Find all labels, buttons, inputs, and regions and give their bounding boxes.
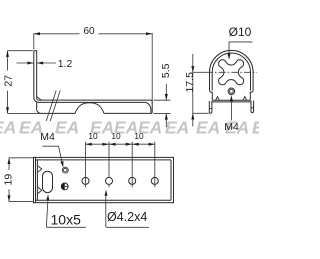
right press triangle [243, 97, 247, 101]
dim 5.5 top extension [154, 99, 171, 101]
left press triangle [216, 97, 220, 101]
svg-text:EA: EA [252, 118, 259, 138]
arrowheads 27 [6, 51, 9, 57]
svg-text:EA: EA [165, 118, 189, 138]
bracket plate bottom line end view [212, 101, 251, 103]
hole 1 [82, 177, 89, 184]
right end edge [151, 102, 152, 114]
dim 27 line [7, 51, 9, 114]
clamp bottom line [212, 99, 250, 101]
svg-text:10x5: 10x5 [51, 212, 82, 228]
M4 hole end view [228, 88, 235, 95]
arrowheads 60 [34, 32, 40, 35]
bend notch chevron top [38, 166, 42, 172]
leader M4 end view [230, 101, 232, 121]
arrowhead M4 end view [230, 95, 233, 101]
base top line [39, 100, 153, 102]
arrowhead 10x5 leader [46, 194, 49, 200]
dim 60 extension left [33, 33, 35, 50]
break mark slashes [46, 91, 60, 122]
arrowhead Ø4.2 leader [105, 190, 108, 196]
plate left fold lines [36, 157, 38, 202]
leader 10x5 [46, 198, 48, 227]
M4 hole plan [64, 168, 68, 172]
watermark EA row [0, 118, 276, 138]
slot 10x5 [43, 171, 53, 192]
svg-text:5.5: 5.5 [160, 63, 172, 78]
base bottom line [39, 102, 151, 113]
dim 19 extensions [9, 158, 33, 202]
plate inner top line [36, 159, 172, 161]
flange bottom right segment [104, 112, 151, 114]
dim 5.5 tails [165, 84, 167, 127]
bracket flange left (end view) [209, 101, 212, 113]
svg-text:EA: EA [0, 118, 16, 138]
hole 3 [129, 177, 136, 184]
svg-text:1.2: 1.2 [58, 58, 73, 70]
arrowheads 17.5 [191, 66, 194, 72]
horizontal centerline dash-dot [193, 71, 206, 73]
flange arch cutout [75, 103, 104, 114]
datum symbol [61, 183, 68, 190]
plate inner right line [170, 160, 172, 200]
svg-text:60: 60 [83, 26, 95, 37]
dim 60 extension right [151, 33, 153, 103]
dim 27 bottom extension [8, 112, 41, 114]
flange tick right [251, 107, 254, 109]
bend chamfer line [37, 97, 41, 100]
svg-text:27: 27 [3, 75, 15, 87]
leader Ø4.2 [105, 196, 107, 228]
arrowhead Ø10 leader [228, 53, 231, 59]
leader Ø10 [229, 42, 253, 53]
arrowheads 1.2 [27, 62, 33, 65]
arrowheads 5.5 [165, 94, 168, 100]
hole 4 [151, 177, 158, 184]
leader M4 plan [43, 146, 63, 164]
bend notch chevron bottom [38, 187, 42, 193]
bracket wall outer line [34, 51, 39, 103]
svg-text:M4: M4 [40, 131, 55, 143]
plate outer rect [34, 157, 174, 202]
svg-text:Ø10: Ø10 [229, 25, 252, 39]
clamp side steps [210, 90, 254, 100]
dim 1.2 arrow lines [17, 62, 57, 64]
flange tick left [209, 107, 212, 109]
svg-text:M4: M4 [224, 121, 239, 133]
flange bottom left segment with corner [37, 103, 75, 114]
svg-text:10: 10 [134, 131, 144, 141]
arrowhead M4 plan leader [60, 161, 63, 167]
dim 19 line [8, 158, 10, 202]
svg-text:EA: EA [196, 118, 220, 138]
hole extension/center lines [86, 142, 155, 188]
dim 17.5 bottom extension [193, 112, 209, 114]
clamp dome inner wall [212, 53, 250, 90]
dim 27 top extension [8, 50, 33, 52]
dim 5.5 bottom extension [154, 112, 171, 114]
underline 10x5 [46, 226, 86, 228]
dim 60 line [34, 33, 152, 35]
svg-text:Ø4.2x4: Ø4.2x4 [107, 210, 147, 224]
dim 17.5 line and tails [192, 54, 194, 127]
svg-text:10: 10 [111, 131, 121, 141]
svg-text:19: 19 [3, 174, 15, 186]
hole 2 [106, 177, 113, 184]
bracket flange right (end view) [251, 101, 254, 113]
underline Ø4.2 [106, 226, 149, 228]
svg-text:17.5: 17.5 [184, 72, 196, 93]
arrowheads 19 [8, 158, 11, 164]
clamp dome outer [210, 50, 254, 90]
arrowheads 10 dims [86, 143, 92, 146]
clover hole [219, 60, 244, 85]
dim 10 line row [86, 143, 155, 145]
bracket wall inner line [34, 51, 39, 100]
plate inner bottom line [36, 199, 172, 201]
svg-text:10: 10 [88, 131, 98, 141]
svg-text:EA: EA [55, 118, 79, 138]
